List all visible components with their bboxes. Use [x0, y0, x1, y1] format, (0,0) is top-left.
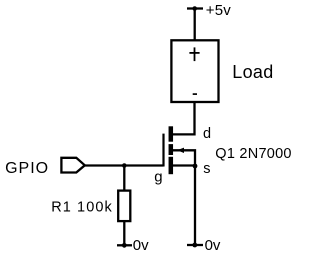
- svg-text:0v: 0v: [133, 237, 149, 254]
- svg-text:+5v: +5v: [206, 2, 232, 19]
- svg-text:g: g: [154, 168, 162, 185]
- svg-text:R1 100k: R1 100k: [51, 199, 113, 215]
- svg-text:0v: 0v: [205, 237, 221, 254]
- svg-text:Load: Load: [232, 62, 273, 82]
- svg-text:s: s: [203, 161, 210, 177]
- svg-text:d: d: [203, 126, 211, 142]
- svg-text:Q1 2N7000: Q1 2N7000: [215, 146, 291, 162]
- svg-text:GPIO: GPIO: [5, 160, 49, 177]
